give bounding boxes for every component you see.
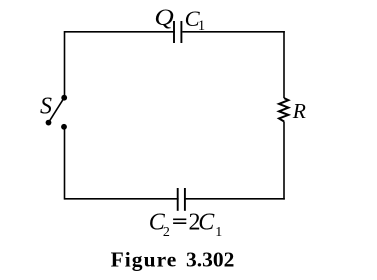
equals sign (two bars): [173, 219, 186, 221]
svg-text:3.302: 3.302: [186, 248, 234, 272]
svg-text:C: C: [198, 210, 215, 236]
capacitor C1 (plates): [174, 21, 181, 43]
wire: top side, right of C1: [182, 31, 284, 33]
wire: left side lower: [64, 127, 66, 200]
switch S: blade end node: [46, 120, 52, 126]
capacitor C2 (plates): [178, 188, 185, 211]
wire: bottom side, right of C2: [184, 198, 285, 200]
resistor R (zigzag): [279, 98, 288, 121]
svg-text:Figure: Figure: [111, 248, 178, 272]
svg-text:S: S: [40, 93, 52, 119]
wire: bottom side, left of C2: [65, 198, 179, 200]
svg-text:Q: Q: [154, 5, 174, 30]
switch S: top contact node: [61, 95, 67, 101]
svg-text:1: 1: [215, 225, 222, 240]
svg-text:2: 2: [163, 225, 170, 240]
svg-text:R: R: [292, 99, 306, 123]
wire: right side upper (to resistor): [283, 31, 285, 98]
switch S: open blade: [49, 98, 65, 123]
wire: right side lower: [283, 122, 285, 200]
svg-text:1: 1: [198, 18, 205, 34]
wire: top side, left of C1: [65, 31, 175, 33]
wire: left side upper (to switch): [64, 31, 66, 98]
switch S: bottom contact node: [61, 124, 67, 130]
